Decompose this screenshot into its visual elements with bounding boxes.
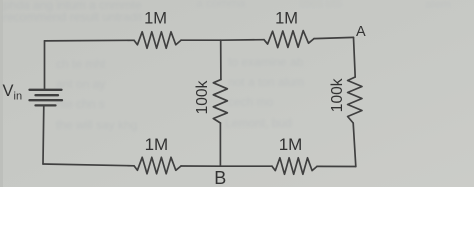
svg-text:B: B bbox=[214, 168, 226, 187]
svg-text:1M: 1M bbox=[145, 135, 169, 154]
svg-text:mes uts: mes uts bbox=[300, 0, 342, 10]
svg-text:ch te mht: ch te mht bbox=[56, 57, 106, 71]
wire bottom rail between left resistor and B bbox=[181, 165, 220, 167]
svg-text:1M: 1M bbox=[279, 135, 303, 154]
wire bottom rail right segment bbox=[317, 165, 356, 167]
svg-text:1M: 1M bbox=[275, 10, 298, 28]
resistor 1M (bottom-left) zigzag bbox=[134, 157, 181, 174]
wire top rail middle segment bbox=[181, 39, 221, 41]
svg-text:100k: 100k bbox=[329, 78, 346, 112]
wire middle branch upper (top rail to 100k) bbox=[220, 40, 222, 79]
battery Vin: middle short plate bbox=[36, 94, 59, 96]
resistor 1M (top-right) zigzag bbox=[264, 31, 314, 48]
svg-text:1M: 1M bbox=[144, 10, 167, 28]
svg-text:not a ton alum: not a ton alum bbox=[228, 75, 304, 89]
wire left branch upper (top rail to battery) bbox=[44, 41, 46, 90]
battery Vin: second long plate bbox=[30, 99, 63, 101]
svg-text:to examine ab: to examine ab bbox=[228, 55, 304, 69]
wire bottom rail left segment bbox=[43, 164, 134, 166]
svg-text:recommend result untradit: recommend result untradit bbox=[3, 10, 143, 24]
svg-text:A: A bbox=[356, 24, 366, 40]
wire top rail to right resistor bbox=[221, 39, 264, 42]
wire right branch lower bbox=[353, 123, 356, 167]
wire middle branch lower (100k to node B) bbox=[219, 123, 221, 166]
svg-text:ant on ay: ant on ay bbox=[56, 77, 105, 91]
resistor 1M (top-left) zigzag bbox=[134, 32, 181, 49]
wire top rail right segment to node A bbox=[314, 37, 354, 38]
svg-text:the will say khg: the will say khg bbox=[56, 118, 137, 132]
svg-text:100k: 100k bbox=[194, 80, 211, 114]
resistor 100k (right) vertical zigzag bbox=[348, 77, 362, 123]
svg-text:cech mo: cech mo bbox=[228, 95, 274, 109]
wire left branch lower (battery to bottom rail) bbox=[42, 105, 45, 164]
wire right branch upper bbox=[354, 37, 356, 77]
battery Vin: top long plate bbox=[30, 89, 62, 91]
svg-text:alem: alem bbox=[425, 0, 451, 11]
svg-text:hte chn s: hte chn s bbox=[56, 97, 105, 111]
svg-text:Lemont, bud: Lemont, bud bbox=[225, 116, 292, 130]
wire bottom rail between B and right resistor bbox=[220, 165, 272, 167]
wire top rail left segment bbox=[45, 39, 135, 42]
battery Vin: bottom short plate bbox=[36, 104, 56, 106]
faint page bleed-through texture (decorative) bbox=[3, 0, 451, 132]
svg-text:a comma: a comma bbox=[196, 0, 246, 10]
resistor 100k (middle) vertical zigzag bbox=[213, 80, 227, 124]
resistor 1M (bottom-right) zigzag bbox=[272, 158, 317, 175]
